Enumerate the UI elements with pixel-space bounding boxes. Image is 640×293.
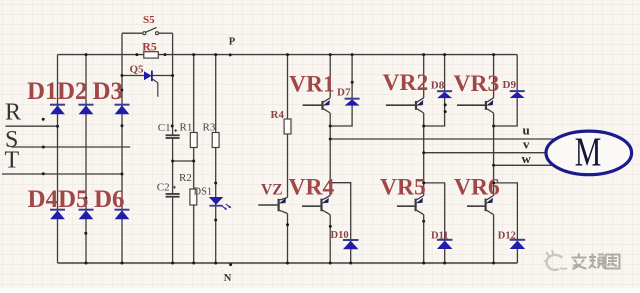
junction w tap	[492, 164, 495, 167]
wire VR4 emitter column	[329, 215, 331, 263]
wire D12 column	[494, 183, 518, 263]
junction N-R2	[192, 262, 195, 265]
wire R input line	[6, 125, 58, 127]
wire C1-C2 mid column	[172, 138, 174, 194]
wire VR6 emitter column	[493, 215, 495, 263]
svg-text:R1: R1	[180, 122, 193, 134]
junction stray VZ em	[286, 223, 289, 226]
svg-text:M: M	[575, 128, 602, 174]
wire switch S5 wire left	[122, 32, 143, 34]
svg-text:D10: D10	[331, 230, 349, 241]
svg-text:v: v	[523, 137, 530, 152]
diode D8	[437, 91, 452, 98]
wire VR1 emitter column	[329, 113, 331, 126]
svg-text:Q5: Q5	[130, 63, 145, 75]
wire D2/D5 column	[85, 55, 87, 263]
transistor VR4	[302, 196, 330, 215]
svg-text:D11: D11	[431, 230, 449, 241]
transistor VR5	[397, 196, 424, 215]
junction stray C1 column	[171, 125, 174, 128]
junction stray near R	[42, 118, 45, 121]
junction C mid tie left	[171, 160, 174, 163]
junction N-DS1	[214, 262, 217, 265]
wire T input line	[2, 173, 122, 175]
junction N-D5	[85, 262, 88, 265]
svg-text:R2: R2	[179, 172, 192, 184]
watermark logo cat	[544, 250, 567, 270]
diode D7	[345, 99, 360, 106]
LED DS1	[209, 197, 231, 210]
diode D6	[115, 210, 130, 220]
wire VR3 collector column	[493, 55, 495, 98]
junction R line end	[56, 125, 59, 128]
junction stray D3 column	[120, 89, 123, 92]
wire VR3 emitter column	[493, 113, 495, 126]
svg-text:VR6: VR6	[454, 175, 500, 201]
junction N-D6	[121, 262, 124, 265]
svg-text:R4: R4	[271, 109, 285, 121]
transistor VR3	[457, 98, 494, 113]
svg-text:D8: D8	[431, 80, 445, 92]
svg-text:VR4: VR4	[289, 175, 335, 201]
switch S5	[143, 27, 159, 34]
junction stray D5 column b	[84, 232, 87, 235]
junction P-R3	[214, 53, 217, 56]
wire u line to motor	[330, 138, 556, 140]
wire D1/D4 column	[57, 55, 59, 263]
svg-text:P: P	[229, 36, 236, 47]
wire D11 column	[424, 183, 445, 263]
junction R5 left	[135, 53, 138, 56]
svg-text:w: w	[522, 151, 532, 166]
junction stray VR4 em	[329, 225, 332, 228]
svg-text:C2: C2	[157, 181, 170, 193]
svg-text:T: T	[5, 148, 20, 174]
wire S5 bracket right / C1 column top	[172, 33, 174, 135]
svg-text:D2: D2	[57, 78, 88, 105]
resistor R2	[190, 189, 197, 205]
diode D12	[510, 240, 526, 249]
junction VR3-D9 tie	[492, 125, 495, 128]
wire v phase column	[423, 126, 425, 196]
junction N-VR6	[492, 262, 495, 265]
svg-text:D1: D1	[27, 78, 58, 105]
junction N label tap	[229, 263, 232, 266]
wire C-R mid tie	[173, 160, 194, 162]
junction N-VR5	[422, 262, 425, 265]
junction VR2-D8 tie	[422, 125, 425, 128]
junction R5 right	[164, 53, 167, 56]
svg-text:VR2: VR2	[383, 70, 429, 96]
svg-text:R: R	[5, 100, 21, 126]
svg-text:VR1: VR1	[289, 72, 335, 98]
junction P-D7	[351, 53, 354, 56]
watermark text 变频圈	[572, 253, 620, 269]
junction P-VR2	[422, 53, 425, 56]
svg-text:D7: D7	[337, 87, 351, 99]
transistor VR1	[303, 98, 331, 113]
junction stray D8 a	[444, 103, 447, 106]
resistor R4	[284, 119, 291, 134]
wire C2 bottom column	[172, 197, 174, 263]
junction N-VZ	[286, 262, 289, 265]
capacitor C2	[166, 186, 180, 197]
wire v line to motor	[424, 152, 548, 154]
wire switch S5 wire right	[158, 32, 172, 34]
transistor VZ	[258, 198, 287, 214]
wire R4 column top	[287, 55, 289, 119]
svg-text:N: N	[224, 273, 232, 284]
junction stray VR5 em	[422, 220, 425, 223]
svg-text:D5: D5	[58, 186, 89, 213]
diode D4	[50, 210, 65, 220]
svg-text:D9: D9	[503, 79, 517, 91]
svg-text:S5: S5	[143, 14, 155, 26]
junction P-VR3	[492, 53, 495, 56]
resistor R3	[212, 133, 219, 148]
junction stray on S line	[42, 146, 45, 149]
wire R3/DS1 column	[215, 55, 217, 263]
svg-text:D3: D3	[93, 78, 124, 105]
junction N-VR4	[329, 262, 332, 265]
wire w phase column	[493, 126, 495, 196]
junction N-D10	[349, 262, 352, 265]
wire N bus	[58, 262, 518, 264]
junction VR1-D7 tie	[329, 125, 332, 128]
junction D11 tap	[422, 181, 425, 184]
wire VR1 collector column	[329, 55, 331, 98]
junction stray D8 b	[444, 110, 447, 113]
junction stray D7 column	[351, 81, 354, 84]
junction N-C2	[171, 262, 174, 265]
wire P bus	[58, 54, 518, 56]
junction N-D11	[443, 262, 446, 265]
svg-text:D6: D6	[94, 186, 125, 213]
transistor VR6	[467, 196, 494, 215]
svg-text:D12: D12	[498, 230, 516, 241]
wire VZ emitter column	[287, 214, 289, 264]
resistor R5	[144, 52, 159, 58]
junction stray DS1 bottom	[214, 219, 217, 222]
diode D5	[79, 210, 94, 220]
junction P-R1	[192, 53, 195, 56]
junction u tap	[329, 138, 332, 141]
motor M	[546, 128, 632, 174]
svg-text:R3: R3	[203, 122, 216, 134]
junction stray D3 column 2	[121, 124, 124, 127]
diode D2	[79, 105, 94, 115]
diode D9	[510, 91, 525, 98]
junction stray on T line	[42, 172, 45, 175]
junction D12 tap	[492, 181, 495, 184]
svg-text:R5: R5	[142, 40, 157, 54]
wire Q5 wire right	[152, 75, 173, 77]
diode D10	[343, 240, 359, 249]
wire VR5 emitter column	[423, 215, 425, 263]
capacitor C1	[166, 129, 180, 138]
junction Q5 left	[121, 74, 124, 77]
wire Q5 wire left	[122, 75, 144, 77]
junction P-VR1	[329, 53, 332, 56]
wire S input line	[12, 146, 131, 148]
resistor R1	[190, 133, 197, 148]
wire D7 column	[330, 55, 352, 126]
wire VR2 emitter column	[423, 113, 425, 126]
junction P-D2col	[85, 53, 88, 56]
junction R mid tie right	[192, 160, 195, 163]
thyristor Q5	[144, 71, 158, 97]
junction T line end	[121, 173, 124, 176]
junction D10 tap	[329, 181, 332, 184]
wire D9 column	[494, 55, 518, 126]
svg-text:u: u	[523, 122, 530, 137]
wire u phase column	[329, 126, 331, 196]
junction stray DS1 top	[214, 182, 217, 185]
diode D3	[115, 105, 130, 115]
wire D8 column	[424, 55, 445, 126]
transistor VR2	[386, 98, 424, 113]
diode D1	[50, 105, 65, 115]
junction P-R4	[286, 53, 289, 56]
junction P-D8	[443, 53, 446, 56]
wire w line to motor	[494, 164, 552, 166]
diode D11	[437, 240, 453, 249]
junction stray D5 column a	[84, 197, 87, 200]
svg-text:DS1: DS1	[194, 187, 213, 198]
wire D10 column	[330, 183, 351, 263]
wire R4-VZ column	[287, 134, 289, 198]
wire VR2 collector column	[423, 55, 425, 98]
svg-text:VR5: VR5	[380, 175, 426, 201]
junction P label tap	[229, 53, 232, 56]
svg-text:VZ: VZ	[261, 182, 283, 199]
svg-text:D4: D4	[28, 186, 59, 213]
junction v tap	[422, 151, 425, 154]
svg-text:C1: C1	[158, 122, 171, 134]
wire R1/R2 column	[193, 55, 195, 263]
junction Q5 right	[171, 74, 174, 77]
wire D3/D6 column + S5 bracket left	[121, 33, 123, 263]
svg-text:VR3: VR3	[454, 71, 500, 97]
